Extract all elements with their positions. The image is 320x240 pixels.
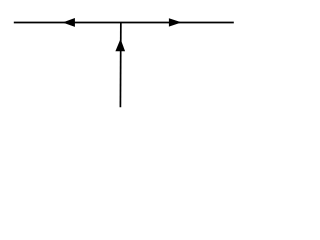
wire: horizontal conductor (14, 22, 234, 24)
wire: vertical conductor from T-junction down (119, 23, 121, 108)
node: T-junction of the two wires (0, 0, 1, 1)
arrowhead: current flowing up toward node (115, 39, 125, 51)
arrowhead: current leaving node to the right (169, 18, 182, 26)
arrowhead: current leaving node to the left (63, 18, 75, 27)
